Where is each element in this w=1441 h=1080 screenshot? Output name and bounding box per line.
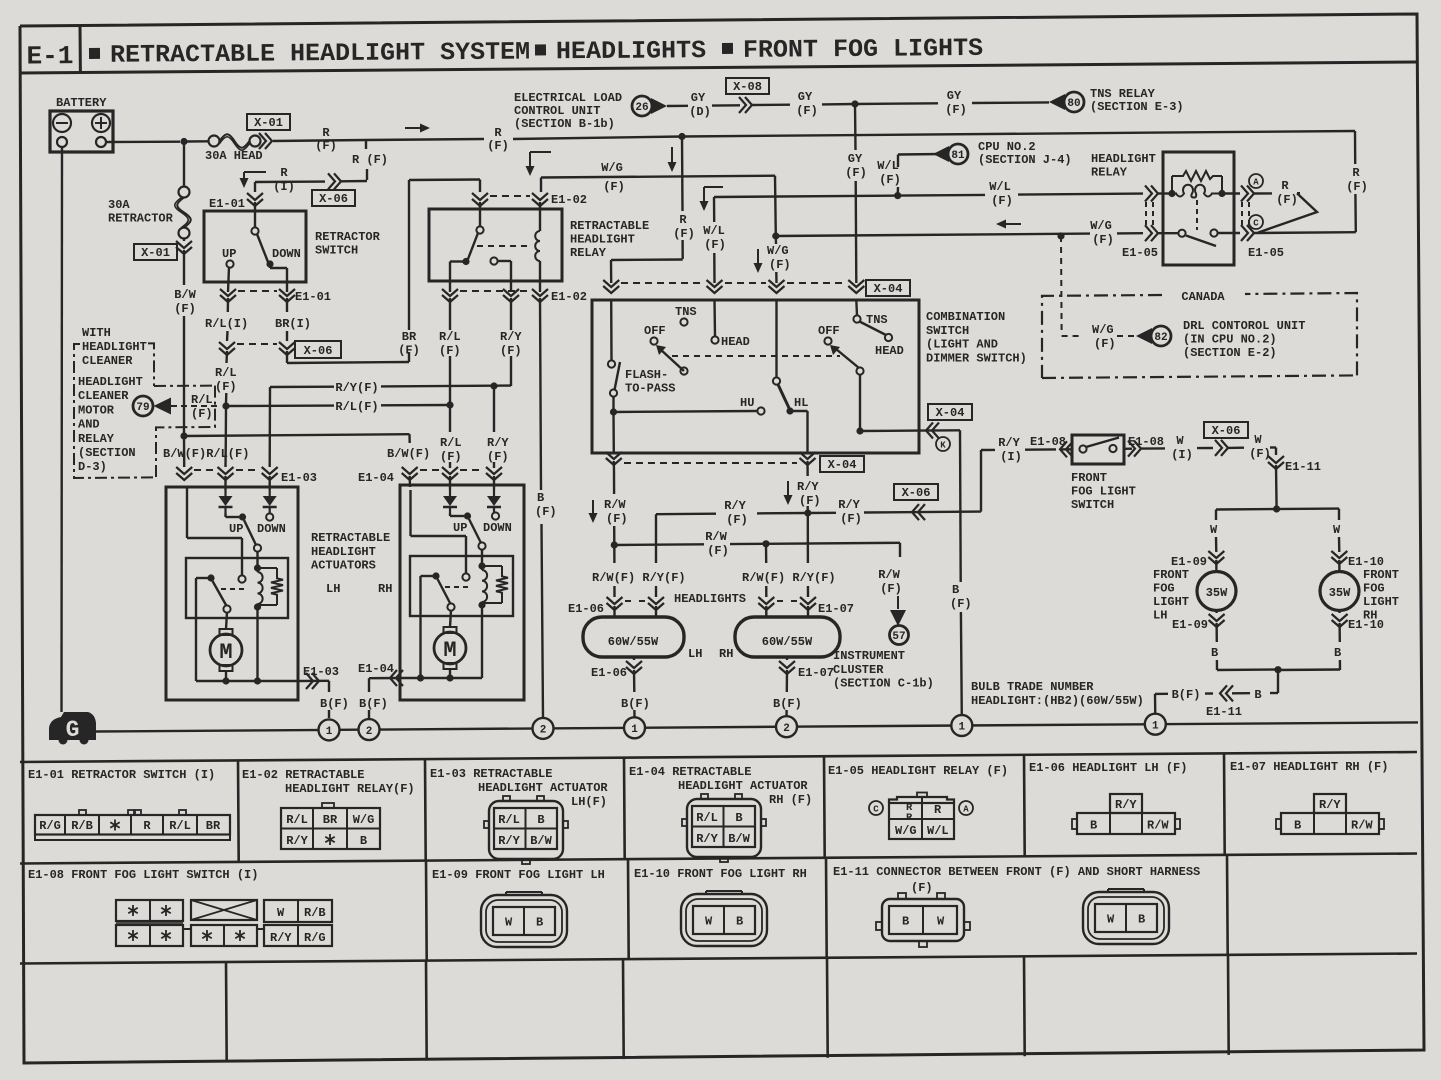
svg-text:R/L: R/L bbox=[439, 330, 461, 344]
wire B/W inside LH bbox=[186, 487, 188, 538]
svg-text:TNS RELAY: TNS RELAY bbox=[1090, 87, 1156, 101]
connector X-01 label bbox=[247, 114, 290, 130]
wire to HU contact bbox=[614, 411, 758, 412]
svg-text:RELAY: RELAY bbox=[78, 432, 115, 446]
connector X-06 label bbox=[312, 190, 355, 206]
svg-text:SWITCH: SWITCH bbox=[315, 244, 358, 258]
svg-text:W: W bbox=[705, 915, 713, 929]
svg-text:R/Y: R/Y bbox=[286, 834, 308, 848]
svg-text:HEADLIGHT: HEADLIGHT bbox=[82, 340, 147, 354]
svg-text:60W/55W: 60W/55W bbox=[608, 635, 659, 649]
svg-text:(F): (F) bbox=[603, 180, 625, 194]
ground wire from battery negative bbox=[60, 147, 63, 712]
svg-text:BR: BR bbox=[402, 330, 417, 344]
right switch lever2 bbox=[836, 349, 859, 368]
svg-text:E1-10: E1-10 bbox=[1348, 618, 1384, 632]
svg-text:W/G: W/G bbox=[767, 244, 789, 258]
svg-text:RETRACTOR: RETRACTOR bbox=[108, 212, 174, 226]
headlight LH bulb bbox=[613, 606, 615, 617]
svg-text:E1-01: E1-01 bbox=[209, 197, 245, 211]
RH dashed link bbox=[445, 586, 472, 588]
callout 57 instrument cluster bbox=[890, 626, 909, 645]
wire R/Y from comb switch bbox=[806, 461, 808, 471]
svg-text:(SECTION C-1b): (SECTION C-1b) bbox=[833, 677, 934, 691]
title bar bbox=[20, 62, 1417, 73]
relay switch dashed link bbox=[1196, 200, 1198, 230]
svg-text:X-06: X-06 bbox=[1212, 424, 1241, 438]
svg-text:R: R bbox=[494, 126, 502, 140]
node coil right bbox=[1218, 190, 1225, 197]
callout 81 CPU No.2 bbox=[948, 144, 968, 164]
svg-text:(F): (F) bbox=[606, 512, 628, 526]
dashed R/L to cleaner bbox=[171, 405, 218, 407]
wire GY vertical bbox=[854, 104, 857, 150]
svg-text:(F): (F) bbox=[769, 258, 791, 272]
connector E1-07 top bbox=[758, 597, 774, 604]
svg-text:E1-11 CONNECTOR BETWEEN FRONT: E1-11 CONNECTOR BETWEEN FRONT (F) AND SH… bbox=[833, 865, 1200, 879]
svg-text:(F): (F) bbox=[174, 302, 196, 316]
svg-text:G: G bbox=[66, 717, 80, 743]
svg-text:(F): (F) bbox=[704, 238, 726, 252]
wire BR (F) from relay bbox=[449, 298, 451, 330]
svg-text:E1-07: E1-07 bbox=[798, 666, 834, 680]
node coil left bbox=[1168, 190, 1175, 197]
svg-text:RH (F): RH (F) bbox=[769, 793, 812, 807]
svg-text:HEAD: HEAD bbox=[721, 335, 750, 349]
svg-text:HEADLIGHTS: HEADLIGHTS bbox=[674, 592, 746, 606]
svg-text:FLASH-: FLASH- bbox=[625, 368, 668, 382]
svg-text:LH(F): LH(F) bbox=[571, 795, 607, 809]
wire W/L (F) horizontal bbox=[714, 196, 898, 197]
svg-text:M: M bbox=[443, 638, 456, 663]
wire B/W down LH bbox=[183, 436, 186, 467]
svg-text:CLUSTER: CLUSTER bbox=[833, 663, 884, 677]
svg-text:UP: UP bbox=[229, 522, 243, 536]
svg-text:E1-02 RETRACTABLE: E1-02 RETRACTABLE bbox=[242, 768, 364, 782]
svg-text:(F): (F) bbox=[487, 450, 509, 464]
svg-text:B: B bbox=[537, 491, 544, 505]
wire W left branch bbox=[1215, 510, 1217, 521]
conditional boundary bbox=[74, 344, 156, 478]
svg-text:E1-05 HEADLIGHT RELAY (F): E1-05 HEADLIGHT RELAY (F) bbox=[828, 764, 1008, 778]
headlight RH bulb bbox=[765, 606, 767, 617]
svg-text:HEADLIGHT: HEADLIGHT bbox=[311, 545, 376, 559]
svg-text:E1-11: E1-11 bbox=[1285, 460, 1321, 474]
svg-text:R/L(F): R/L(F) bbox=[335, 400, 378, 414]
svg-text:R: R bbox=[1281, 179, 1289, 193]
svg-text:E1-11: E1-11 bbox=[1206, 705, 1242, 719]
wire B LH fog bbox=[1215, 623, 1218, 642]
front fog light LH bulb bbox=[1215, 560, 1217, 571]
wire R/Y (I) riser bbox=[980, 450, 982, 512]
node W/G to DRL bbox=[1057, 232, 1064, 239]
svg-text:FOG: FOG bbox=[1153, 582, 1175, 596]
LH actuator box bbox=[166, 487, 298, 700]
connector E1-10 bottom bbox=[1338, 611, 1340, 614]
svg-text:(SECTION B-1b): (SECTION B-1b) bbox=[514, 117, 615, 131]
svg-text:DRL CONTOROL UNIT: DRL CONTOROL UNIT bbox=[1183, 319, 1305, 333]
terminal A circle bbox=[1249, 174, 1263, 188]
ground node 1 comb switch bbox=[951, 715, 972, 736]
retractable headlight relay box bbox=[429, 209, 562, 281]
connector E1-02 bottom bbox=[442, 289, 458, 296]
svg-text:HEADLIGHT ACTUATOR: HEADLIGHT ACTUATOR bbox=[478, 781, 608, 795]
wire W/G corner down bbox=[774, 176, 777, 236]
svg-text:(F): (F) bbox=[796, 104, 818, 118]
svg-text:BR(I): BR(I) bbox=[275, 317, 311, 331]
svg-text:X-04: X-04 bbox=[828, 458, 857, 472]
svg-text:35W: 35W bbox=[1329, 586, 1351, 600]
svg-text:W: W bbox=[277, 906, 285, 920]
wire W down to split bbox=[1275, 465, 1278, 509]
connector X-06 bbox=[226, 331, 229, 341]
terminal K circle bbox=[936, 437, 950, 451]
svg-text:E1-07: E1-07 bbox=[818, 602, 854, 616]
svg-text:RETRACTOR: RETRACTOR bbox=[315, 230, 381, 244]
wire R/Y down RH bbox=[807, 513, 810, 563]
svg-text:A: A bbox=[963, 805, 969, 815]
resistor bridge bbox=[1171, 176, 1173, 194]
svg-text:SWITCH: SWITCH bbox=[926, 324, 969, 338]
battery bbox=[50, 111, 113, 152]
svg-text:ELECTRICAL LOAD: ELECTRICAL LOAD bbox=[514, 91, 622, 105]
wire R (I) bbox=[255, 180, 325, 183]
svg-text:R/G: R/G bbox=[304, 931, 326, 945]
wire R(F) branch down bbox=[681, 137, 684, 212]
LH inner relay box bbox=[186, 558, 288, 618]
wire R/W from comb switch bbox=[613, 461, 616, 471]
svg-text:R: R bbox=[906, 812, 913, 824]
svg-text:30A: 30A bbox=[108, 198, 130, 212]
svg-text:R/W: R/W bbox=[1351, 819, 1373, 833]
svg-text:GY: GY bbox=[947, 89, 962, 103]
node R/W junction LH bbox=[611, 541, 618, 548]
svg-text:B: B bbox=[360, 834, 367, 848]
svg-text:(I): (I) bbox=[1000, 450, 1022, 464]
relay contact bbox=[490, 257, 497, 264]
right switch common down bbox=[859, 375, 861, 431]
svg-text:E1-09 FRONT FOG LIGHT LH: E1-09 FRONT FOG LIGHT LH bbox=[432, 868, 605, 882]
wire R (F) branch down bbox=[365, 140, 367, 149]
callout 79 headlight cleaner bbox=[133, 396, 153, 416]
svg-text:B(F): B(F) bbox=[773, 697, 802, 711]
node GY junction bbox=[851, 100, 858, 107]
ground symbol G car bbox=[49, 712, 96, 740]
LH up/down switch bbox=[224, 513, 226, 517]
wire B(F) to ground bbox=[1205, 692, 1213, 694]
wire W split horizontal bbox=[1216, 507, 1339, 510]
svg-text:RH: RH bbox=[719, 647, 733, 661]
svg-text:FRONT: FRONT bbox=[1363, 568, 1399, 582]
ground node 1 headlight LH bbox=[624, 717, 645, 738]
svg-text:B: B bbox=[536, 916, 543, 930]
svg-text:FOG: FOG bbox=[1363, 582, 1385, 596]
combination switch box bbox=[592, 300, 919, 453]
svg-text:(F): (F) bbox=[1092, 233, 1114, 247]
svg-text:OFF: OFF bbox=[644, 324, 666, 338]
ground node 1 LH actuator bbox=[319, 719, 340, 740]
svg-text:E1-05: E1-05 bbox=[1248, 246, 1284, 260]
svg-text:R/L(I): R/L(I) bbox=[205, 317, 248, 331]
svg-text:R (F): R (F) bbox=[352, 153, 388, 167]
table grid bbox=[20, 752, 1417, 762]
svg-text:W/L: W/L bbox=[877, 159, 899, 173]
direction arrow down bbox=[671, 147, 673, 166]
svg-text:CPU NO.2: CPU NO.2 bbox=[978, 140, 1036, 154]
svg-text:CONTROL UNIT: CONTROL UNIT bbox=[514, 104, 600, 118]
fuse 30A HEAD bbox=[209, 136, 220, 147]
direction arrow W/L bbox=[704, 186, 723, 188]
connector E1-11 bottom chevron bbox=[1226, 685, 1233, 701]
connector E1-10 top bbox=[1331, 551, 1347, 558]
svg-text:30A HEAD: 30A HEAD bbox=[205, 149, 263, 163]
svg-text:E1-09: E1-09 bbox=[1171, 555, 1207, 569]
svg-text:R/L: R/L bbox=[498, 813, 520, 827]
direction arrow R(I) bbox=[244, 171, 266, 173]
node R/Y junction bbox=[804, 509, 811, 516]
wire R (F) riser bbox=[1354, 131, 1357, 164]
svg-text:R/W: R/W bbox=[1147, 819, 1169, 833]
svg-text:E1-10 FRONT FOG LIGHT RH: E1-10 FRONT FOG LIGHT RH bbox=[634, 867, 807, 881]
node W split bbox=[1273, 505, 1280, 512]
wire retractor switch DOWN out bbox=[269, 267, 271, 268]
svg-text:X-01: X-01 bbox=[254, 116, 283, 130]
svg-text:(F): (F) bbox=[879, 173, 901, 187]
relay switch contacts bbox=[1158, 232, 1178, 234]
svg-text:B: B bbox=[952, 583, 959, 597]
svg-text:BR: BR bbox=[206, 819, 221, 833]
LH motor bbox=[220, 629, 233, 635]
front fog light switch box bbox=[1072, 435, 1124, 464]
node R/Y mid junction bbox=[490, 382, 497, 389]
svg-text:LH: LH bbox=[688, 647, 702, 661]
wire GY (F) bbox=[752, 103, 790, 106]
svg-text:R/W(F) R/Y(F): R/W(F) R/Y(F) bbox=[742, 571, 836, 585]
callout 80 TNS relay bbox=[1064, 92, 1084, 112]
svg-text:RELAY: RELAY bbox=[1091, 166, 1128, 180]
svg-text:W/L: W/L bbox=[703, 224, 725, 238]
svg-text:HEADLIGHT: HEADLIGHT bbox=[570, 233, 635, 247]
svg-text:RETRACTABLE HEADLIGHT SYSTEM: RETRACTABLE HEADLIGHT SYSTEM bbox=[110, 37, 530, 69]
flow arrow left on W/G bbox=[1002, 223, 1021, 225]
LH bottom rail bbox=[196, 680, 298, 682]
svg-text:CLEANER: CLEANER bbox=[82, 354, 133, 368]
ground node 1 fog lights bbox=[1145, 714, 1166, 735]
svg-text:E1-06: E1-06 bbox=[568, 602, 604, 616]
relay coil bbox=[539, 202, 541, 231]
svg-text:COMBINATION: COMBINATION bbox=[926, 310, 1005, 324]
svg-text:(F): (F) bbox=[673, 227, 695, 241]
svg-text:35W: 35W bbox=[1206, 586, 1228, 600]
wire K output bbox=[860, 429, 919, 432]
retractor switch box bbox=[204, 211, 306, 282]
svg-text:W: W bbox=[1107, 913, 1115, 927]
dimmer switch HL bbox=[775, 300, 777, 377]
svg-text:W/G: W/G bbox=[353, 813, 375, 827]
wire R/Y (I) to fog switch bbox=[981, 449, 995, 452]
wire R/Y RH down bbox=[493, 462, 495, 468]
connector X-04 upper bbox=[603, 280, 619, 287]
svg-text:TNS: TNS bbox=[866, 313, 888, 327]
svg-text:CLEANER: CLEANER bbox=[78, 389, 129, 403]
svg-text:(F): (F) bbox=[191, 407, 213, 421]
ground node 2 relay B bbox=[533, 718, 554, 739]
svg-text:B: B bbox=[1294, 819, 1301, 833]
wire R/Y (F) right to X-06 bbox=[808, 512, 836, 515]
svg-text:E1-07 HEADLIGHT RH (F): E1-07 HEADLIGHT RH (F) bbox=[1230, 760, 1388, 774]
connector X-01 label 2 bbox=[134, 244, 177, 260]
svg-text:R/Y: R/Y bbox=[797, 480, 819, 494]
headlight relay box bbox=[1163, 152, 1234, 265]
node B/W branch junction bbox=[180, 432, 187, 439]
svg-text:HEADLIGHT ACTUATOR: HEADLIGHT ACTUATOR bbox=[678, 779, 808, 793]
connector E1-03 bbox=[176, 467, 192, 474]
svg-text:R/W: R/W bbox=[878, 568, 900, 582]
connector E1-05 right chevrons bbox=[1241, 186, 1248, 202]
svg-text:SWITCH: SWITCH bbox=[1071, 498, 1114, 512]
svg-text:(F): (F) bbox=[945, 103, 967, 117]
connector X-06 label fog bbox=[1204, 422, 1248, 438]
svg-text:(IN CPU NO.2): (IN CPU NO.2) bbox=[1183, 333, 1277, 347]
fuse 30A RETRACTOR bbox=[183, 142, 185, 188]
connector E1-07 bottom bbox=[786, 657, 788, 660]
svg-text:R/Y: R/Y bbox=[724, 499, 746, 513]
svg-text:(F): (F) bbox=[215, 380, 237, 394]
svg-text:R/Y: R/Y bbox=[1115, 798, 1137, 812]
wire fuse to R(F) junction bbox=[273, 140, 366, 141]
wire GY (D) bbox=[667, 105, 688, 108]
svg-text:B: B bbox=[736, 915, 743, 929]
svg-text:M: M bbox=[219, 640, 232, 665]
front fog light RH bulb bbox=[1338, 560, 1340, 571]
flow arrow right bbox=[405, 127, 424, 129]
connector X-04 right bbox=[932, 423, 939, 439]
connector E1-09 bottom bbox=[1215, 611, 1217, 614]
svg-text:FRONT: FRONT bbox=[1071, 471, 1107, 485]
terminal C circle bbox=[1249, 215, 1263, 229]
wire R (F) from A bbox=[1254, 192, 1272, 195]
svg-text:E1-06: E1-06 bbox=[591, 666, 627, 680]
svg-text:GY: GY bbox=[691, 91, 706, 105]
wire HL to output bbox=[790, 410, 808, 412]
svg-text:(F): (F) bbox=[500, 344, 522, 358]
svg-text:HEAD: HEAD bbox=[875, 344, 904, 358]
wire retractor switch UP out bbox=[228, 267, 229, 292]
LH diode R/Y bbox=[269, 476, 271, 490]
svg-text:B(F): B(F) bbox=[320, 697, 349, 711]
svg-text:W: W bbox=[505, 916, 513, 930]
E1-11 connector drawing 1 bbox=[882, 899, 964, 941]
svg-text:X-06: X-06 bbox=[304, 344, 333, 358]
svg-text:B(F): B(F) bbox=[621, 697, 650, 711]
svg-text:R/L: R/L bbox=[440, 436, 462, 450]
svg-text:X-06: X-06 bbox=[902, 486, 931, 500]
svg-text:2: 2 bbox=[366, 726, 373, 738]
node R/W junction RH bbox=[762, 540, 769, 547]
svg-text:X-04: X-04 bbox=[874, 282, 903, 296]
right switch lever TNS-HEAD bbox=[860, 322, 887, 336]
svg-text:RH: RH bbox=[378, 582, 392, 596]
svg-text:79: 79 bbox=[136, 402, 149, 414]
svg-text:B: B bbox=[537, 813, 544, 827]
svg-text:B: B bbox=[1334, 646, 1341, 660]
wire R/L down to E1-03 bbox=[225, 406, 228, 441]
node R(F) junction to W/G bbox=[678, 133, 685, 140]
svg-text:57: 57 bbox=[892, 631, 905, 643]
svg-text:B/W(F)R/L(F): B/W(F)R/L(F) bbox=[163, 447, 249, 461]
svg-text:E1-02: E1-02 bbox=[551, 193, 587, 207]
svg-text:E1-08 FRONT FOG LIGHT SWITCH (: E1-08 FRONT FOG LIGHT SWITCH (I) bbox=[28, 868, 258, 882]
svg-text:(SECTION E-3): (SECTION E-3) bbox=[1090, 100, 1184, 114]
svg-text:W: W bbox=[937, 915, 945, 929]
svg-text:B(F): B(F) bbox=[359, 697, 388, 711]
connector E1-06 bottom bbox=[633, 657, 635, 660]
svg-text:R/L: R/L bbox=[169, 819, 191, 833]
svg-text:(SECTION J-4): (SECTION J-4) bbox=[978, 153, 1072, 167]
left switch lever bbox=[660, 349, 684, 371]
svg-text:(F): (F) bbox=[880, 582, 902, 596]
svg-text:UP: UP bbox=[222, 247, 236, 261]
wire R/W down LH bbox=[613, 545, 616, 563]
svg-text:HEADLIGHT:(HB2)(60W/55W): HEADLIGHT:(HB2)(60W/55W) bbox=[971, 694, 1144, 708]
flash-to-pass contacts bbox=[610, 300, 613, 360]
wire W/G corner into relay bbox=[540, 178, 542, 193]
callout 26 electrical load control unit bbox=[632, 96, 652, 116]
RH diode R/Y bbox=[493, 476, 495, 490]
svg-text:(I): (I) bbox=[273, 180, 295, 194]
svg-text:HEADLIGHT: HEADLIGHT bbox=[78, 375, 143, 389]
RH up/down switch bbox=[449, 513, 451, 516]
svg-text:WITH: WITH bbox=[82, 326, 111, 340]
wire flash common down bbox=[612, 412, 615, 453]
wire R/L (F) horizontal bbox=[226, 404, 334, 407]
wire B/W to RH actuator bbox=[184, 434, 410, 436]
wire R/W down RH bbox=[765, 544, 768, 563]
node R/L mid junction bbox=[446, 401, 453, 408]
svg-text:2: 2 bbox=[540, 725, 547, 737]
svg-text:(LIGHT AND: (LIGHT AND bbox=[926, 338, 998, 352]
node W/G junction bbox=[772, 232, 779, 239]
svg-text:R/Y: R/Y bbox=[696, 832, 718, 846]
direction arrow W/G bbox=[530, 151, 551, 153]
svg-text:GY: GY bbox=[848, 152, 863, 166]
svg-text:(D): (D) bbox=[689, 105, 711, 119]
svg-text:LIGHT: LIGHT bbox=[1153, 595, 1189, 609]
svg-text:(F): (F) bbox=[991, 194, 1013, 208]
svg-text:LH: LH bbox=[326, 582, 340, 596]
ground node 2 RH actuator bbox=[359, 719, 380, 740]
dashed link combination switch bbox=[672, 355, 840, 357]
wire R/W to instrument cluster bbox=[899, 543, 901, 557]
wire BR top corner bbox=[409, 178, 480, 181]
svg-text:X-06: X-06 bbox=[319, 192, 348, 206]
wire B (F) long from relay bbox=[540, 298, 541, 490]
svg-text:(F): (F) bbox=[315, 139, 337, 153]
svg-text:(F): (F) bbox=[840, 512, 862, 526]
svg-text:R/Y: R/Y bbox=[487, 436, 509, 450]
callout 82 DRL control unit bbox=[1151, 326, 1171, 346]
svg-text:E1-04 RETRACTABLE: E1-04 RETRACTABLE bbox=[629, 765, 751, 779]
svg-text:R: R bbox=[1352, 166, 1360, 180]
svg-text:W: W bbox=[1210, 523, 1218, 537]
svg-text:FOG LIGHT: FOG LIGHT bbox=[1071, 485, 1136, 499]
svg-text:R/W(F) R/Y(F): R/W(F) R/Y(F) bbox=[592, 571, 686, 585]
svg-text:W: W bbox=[1254, 433, 1262, 447]
svg-text:TO-PASS: TO-PASS bbox=[625, 382, 675, 396]
svg-text:(F): (F) bbox=[911, 881, 933, 895]
svg-text:B: B bbox=[1254, 688, 1261, 702]
svg-text:E1-09: E1-09 bbox=[1172, 618, 1208, 632]
